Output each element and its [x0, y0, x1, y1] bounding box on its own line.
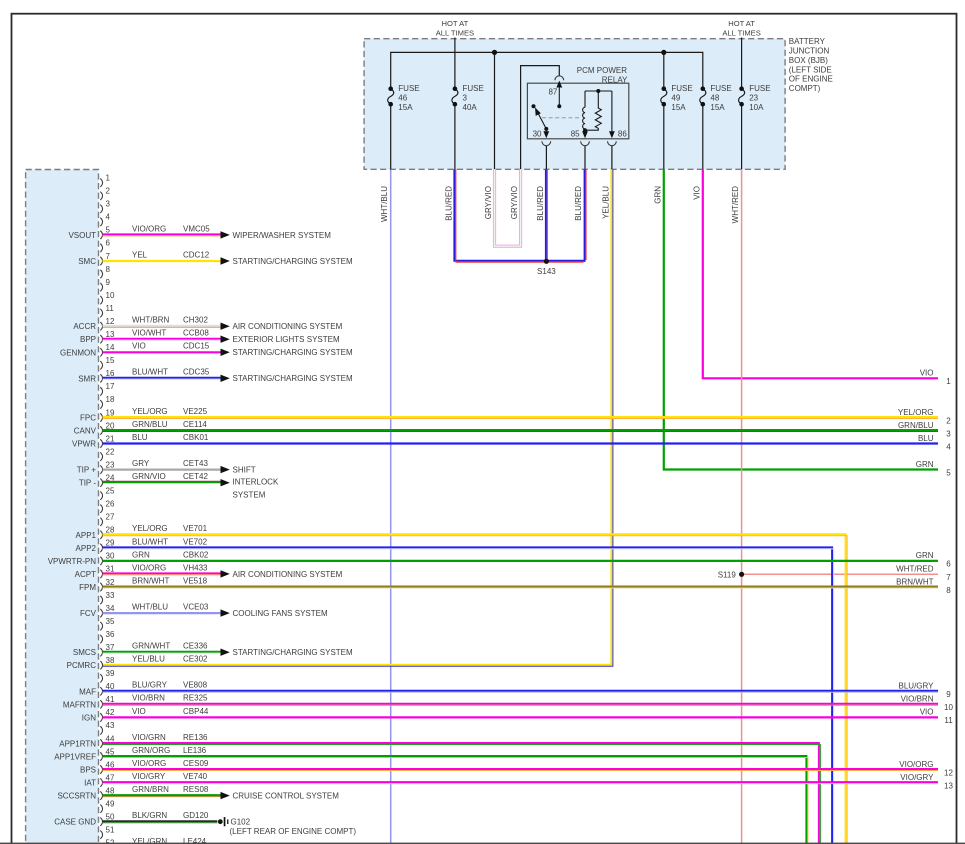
svg-text:10A: 10A [749, 103, 764, 112]
label exit 11 VIO [920, 708, 953, 726]
svg-text:GRN/BLU: GRN/BLU [898, 421, 934, 430]
svg-text:GRN/WHT: GRN/WHT [132, 642, 170, 651]
svg-text:CBK02: CBK02 [183, 550, 209, 559]
svg-text:6: 6 [106, 239, 111, 248]
svg-text:FUSE: FUSE [398, 84, 419, 93]
svg-text:CE302: CE302 [183, 655, 208, 664]
svg-text:VIO: VIO [920, 708, 934, 717]
svg-text:37: 37 [106, 643, 115, 652]
svg-text:GRN/ORG: GRN/ORG [132, 746, 170, 755]
svg-text:APP1RTN: APP1RTN [59, 740, 96, 749]
svg-text:SMC: SMC [78, 257, 96, 266]
svg-text:RELAY: RELAY [602, 76, 628, 85]
svg-text:VIO/ORG: VIO/ORG [132, 224, 166, 233]
svg-text:23: 23 [749, 93, 758, 102]
svg-text:86: 86 [618, 129, 627, 138]
PCM connector box outline [26, 170, 99, 844]
svg-text:SHIFT: SHIFT [233, 466, 256, 475]
label exit 10 VIO/BRN [901, 695, 954, 713]
svg-text:ALL TIMES: ALL TIMES [436, 28, 474, 37]
svg-text:15A: 15A [398, 103, 413, 112]
svg-text:43: 43 [106, 721, 115, 730]
svg-text:HOT AT: HOT AT [728, 19, 755, 28]
svg-text:3: 3 [463, 93, 468, 102]
svg-text:CDC12: CDC12 [183, 250, 210, 259]
svg-text:VE740: VE740 [183, 772, 208, 781]
svg-text:SMR: SMR [78, 374, 96, 383]
wire relay pin 30 stub [545, 146, 547, 170]
svg-text:28: 28 [106, 526, 115, 535]
svg-text:CH302: CH302 [183, 316, 208, 325]
wire pin 20 GRN/BLU CE114 [103, 420, 939, 432]
wire pin 45 GRN/ORG LE136 [103, 746, 808, 844]
svg-text:ACCR: ACCR [73, 322, 96, 331]
svg-text:VIO/ORG: VIO/ORG [899, 760, 933, 769]
label exit 7 WHT/RED [896, 565, 951, 583]
svg-text:FPM: FPM [79, 583, 96, 592]
svg-text:BRN/WHT: BRN/WHT [896, 577, 933, 586]
svg-text:8: 8 [106, 265, 111, 274]
svg-text:GRN/BRN: GRN/BRN [132, 785, 169, 794]
svg-text:26: 26 [106, 500, 115, 509]
wire pin 19 YEL/ORG VE225 [103, 407, 939, 419]
fuse 49 15A [661, 84, 693, 112]
wire pin 23 GRY CET43 [103, 459, 256, 475]
svg-text:11: 11 [944, 716, 953, 725]
svg-text:ACPT: ACPT [75, 570, 96, 579]
svg-text:WHT/BRN: WHT/BRN [132, 316, 170, 325]
fuse 3 40A [452, 84, 484, 112]
svg-text:VIO/BRN: VIO/BRN [901, 695, 934, 704]
splice S143 [537, 259, 556, 276]
label exit 3 GRN/BLU [898, 421, 951, 439]
svg-text:BOX (BJB): BOX (BJB) [789, 56, 828, 65]
svg-text:47: 47 [106, 773, 115, 782]
relay coil bottom node [583, 128, 587, 132]
label HOT AT ALL TIMES (left) [436, 19, 474, 37]
svg-text:VMC05: VMC05 [183, 224, 210, 233]
wire pin 46 VIO/ORG CES09 [103, 759, 939, 771]
svg-text:2: 2 [106, 187, 111, 196]
svg-text:FUSE: FUSE [749, 84, 770, 93]
svg-text:VCE03: VCE03 [183, 603, 209, 612]
svg-text:13: 13 [106, 330, 115, 339]
wire pin 50 BLK/GRN GD120 [103, 811, 218, 823]
wire GRY/VIO riser to bus [494, 52, 496, 169]
fuse 46 15A [388, 84, 420, 112]
svg-text:48: 48 [106, 786, 115, 795]
svg-text:YEL/ORG: YEL/ORG [898, 408, 934, 417]
svg-text:32: 32 [106, 578, 115, 587]
wire pin 16 BLU/WHT CDC35 [103, 368, 353, 384]
svg-text:VE702: VE702 [183, 537, 208, 546]
svg-text:31: 31 [106, 565, 115, 574]
svg-text:VPWR: VPWR [72, 440, 96, 449]
svg-text:YEL/ORG: YEL/ORG [132, 407, 168, 416]
svg-text:BLU/WHT: BLU/WHT [132, 537, 168, 546]
wire WHT/RED S119 to right edge [742, 573, 938, 575]
svg-text:BPP: BPP [80, 335, 96, 344]
svg-text:CDC35: CDC35 [183, 368, 210, 377]
wire pin 34 WHT/BLU VCE03 [103, 603, 328, 619]
svg-text:SYSTEM: SYSTEM [233, 491, 266, 500]
wire pin 44 VIO/GRN RE136 [103, 733, 821, 844]
svg-text:13: 13 [944, 781, 953, 790]
svg-text:CRUISE CONTROL SYSTEM: CRUISE CONTROL SYSTEM [233, 792, 340, 801]
label exit 6 GRN [916, 551, 952, 569]
wire relay pin 86 stub [611, 146, 613, 170]
wire GRY/VIO loop [495, 169, 521, 246]
svg-text:FUSE: FUSE [463, 84, 484, 93]
svg-text:9: 9 [946, 690, 951, 699]
svg-text:CE336: CE336 [183, 642, 208, 651]
svg-text:WHT/BLU: WHT/BLU [132, 603, 168, 612]
wire pin 42 VIO CBP44 [103, 707, 939, 718]
relay pin 86 cup [608, 141, 617, 145]
wire HOT AT feed to fuse 3 [454, 38, 456, 89]
label exit 1 VIO [920, 369, 952, 387]
svg-text:BLU/WHT: BLU/WHT [132, 368, 168, 377]
svg-text:FUSE: FUSE [710, 84, 731, 93]
svg-text:15A: 15A [671, 103, 686, 112]
svg-text:BLU: BLU [918, 434, 934, 443]
svg-text:WIPER/WASHER SYSTEM: WIPER/WASHER SYSTEM [233, 231, 332, 240]
svg-text:FCV: FCV [80, 609, 97, 618]
wire pin 41 VIO/BRN RE325 [103, 694, 939, 706]
svg-text:30: 30 [533, 129, 542, 138]
svg-text:HOT AT: HOT AT [442, 19, 469, 28]
svg-text:VE701: VE701 [183, 524, 208, 533]
svg-text:RE325: RE325 [183, 694, 208, 703]
svg-text:4: 4 [946, 442, 951, 451]
svg-text:40A: 40A [463, 103, 478, 112]
relay switch blade [535, 107, 548, 130]
svg-text:12: 12 [106, 317, 115, 326]
svg-text:7: 7 [946, 573, 951, 582]
relay coil resistor [585, 91, 601, 130]
svg-text:51: 51 [106, 826, 115, 835]
svg-text:42: 42 [106, 708, 115, 717]
svg-text:27: 27 [106, 513, 115, 522]
svg-text:49: 49 [106, 800, 115, 809]
svg-text:21: 21 [106, 434, 115, 443]
svg-text:CET43: CET43 [183, 459, 208, 468]
label exit 8 BRN/WHT [896, 577, 951, 595]
wire pin 28 YEL/ORG VE701 [103, 524, 848, 844]
PCM connector pin cups 1-52 [100, 179, 102, 844]
svg-text:WHT/RED: WHT/RED [896, 565, 934, 574]
relay pin 87 arrow [556, 81, 562, 109]
svg-text:3: 3 [946, 429, 951, 438]
svg-text:YEL/BLU: YEL/BLU [132, 655, 165, 664]
svg-text:COOLING FANS SYSTEM: COOLING FANS SYSTEM [233, 609, 328, 618]
svg-text:GRY/VIO: GRY/VIO [510, 186, 519, 219]
svg-text:25: 25 [106, 487, 115, 496]
svg-text:CASE GND: CASE GND [54, 818, 96, 827]
svg-text:(LEFT SIDE: (LEFT SIDE [789, 65, 832, 74]
wire WHT/BLU vertical [390, 170, 392, 844]
svg-text:8: 8 [946, 586, 951, 595]
svg-text:VE808: VE808 [183, 681, 208, 690]
svg-text:BLU/RED: BLU/RED [444, 186, 453, 221]
svg-text:VIO/ORG: VIO/ORG [132, 759, 166, 768]
svg-text:RES08: RES08 [183, 785, 209, 794]
svg-text:3: 3 [106, 200, 111, 209]
svg-text:VIO/WHT: VIO/WHT [132, 329, 166, 338]
relay pin 85 cup [581, 141, 590, 145]
wire pin 32 BRN/WHT VE518 [103, 576, 939, 588]
label pin 38 YEL/BLU CE302 [132, 655, 208, 664]
svg-text:STARTING/CHARGING SYSTEM: STARTING/CHARGING SYSTEM [233, 348, 353, 357]
svg-text:9: 9 [106, 278, 111, 287]
svg-text:VH433: VH433 [183, 563, 208, 572]
svg-text:VIO: VIO [920, 369, 934, 378]
wire relay 87 loop [521, 66, 560, 170]
svg-text:30: 30 [106, 552, 115, 561]
svg-text:GRN: GRN [653, 186, 662, 204]
label SHIFT INTERLOCK SYSTEM [233, 478, 279, 500]
wire below fuse 49 [663, 104, 665, 169]
svg-text:STARTING/CHARGING SYSTEM: STARTING/CHARGING SYSTEM [233, 648, 353, 657]
svg-text:2: 2 [946, 416, 951, 425]
svg-text:APP1VREF: APP1VREF [54, 753, 96, 762]
svg-text:46: 46 [106, 760, 115, 769]
wire below fuse 23 [741, 104, 743, 169]
fuse 48 15A [700, 84, 732, 112]
svg-text:GRY/VIO: GRY/VIO [484, 186, 493, 219]
svg-text:VIO/GRY: VIO/GRY [132, 772, 166, 781]
svg-text:AIR CONDITIONING SYSTEM: AIR CONDITIONING SYSTEM [233, 322, 343, 331]
svg-text:TIP -: TIP - [79, 479, 97, 488]
svg-text:CBP44: CBP44 [183, 707, 209, 716]
wire YEL/BLU relay 86 to pin 38 [103, 169, 613, 666]
svg-text:49: 49 [671, 93, 680, 102]
svg-text:YEL/ORG: YEL/ORG [132, 524, 168, 533]
svg-text:20: 20 [106, 421, 115, 430]
svg-text:1: 1 [946, 377, 951, 386]
svg-text:CES09: CES09 [183, 759, 209, 768]
svg-text:AIR CONDITIONING SYSTEM: AIR CONDITIONING SYSTEM [233, 570, 343, 579]
svg-text:VIO/GRN: VIO/GRN [132, 733, 166, 742]
svg-text:GRN: GRN [916, 460, 934, 469]
label HOT AT ALL TIMES (right) [722, 19, 760, 37]
svg-text:19: 19 [106, 408, 115, 417]
svg-text:VIO: VIO [132, 342, 146, 351]
label exit 12 VIO/ORG [899, 760, 953, 778]
svg-text:10: 10 [106, 291, 115, 300]
svg-text:G102: G102 [231, 817, 251, 826]
wire pin 37 GRN/WHT CE336 [103, 642, 353, 658]
wire below fuse 3 [454, 104, 456, 169]
wire fuse 49 feed from bus [663, 52, 665, 88]
wire pin 48 GRN/BRN RES08 [103, 785, 340, 801]
svg-text:WHT/BLU: WHT/BLU [380, 186, 389, 222]
relay pin 30 cup [542, 141, 551, 145]
svg-text:INTERLOCK: INTERLOCK [233, 478, 279, 487]
svg-text:CDC15: CDC15 [183, 342, 210, 351]
svg-text:36: 36 [106, 630, 115, 639]
svg-text:FPC: FPC [80, 414, 96, 423]
svg-text:(LEFT REAR OF ENGINE COMPT): (LEFT REAR OF ENGINE COMPT) [230, 827, 357, 836]
svg-text:ALL TIMES: ALL TIMES [722, 28, 760, 37]
svg-text:VSOUT: VSOUT [68, 231, 96, 240]
svg-text:18: 18 [106, 395, 115, 404]
svg-text:34: 34 [106, 604, 115, 613]
wire pin 31 VIO/ORG VH433 [103, 563, 343, 579]
svg-text:TIP +: TIP + [77, 466, 97, 475]
svg-text:BATTERY: BATTERY [789, 37, 826, 46]
relay pin 87 cup [555, 76, 564, 80]
svg-text:JUNCTION: JUNCTION [789, 47, 830, 56]
svg-text:33: 33 [106, 591, 115, 600]
svg-text:VIO/ORG: VIO/ORG [132, 563, 166, 572]
wire pin 14 VIO CDC15 [103, 342, 353, 358]
svg-text:BRN/WHT: BRN/WHT [132, 576, 169, 585]
svg-text:VE518: VE518 [183, 576, 208, 585]
wire bus in BJB [391, 52, 703, 88]
label exit 9 BLU/GRY [899, 682, 952, 700]
svg-text:LE136: LE136 [183, 746, 207, 755]
svg-text:GRN/VIO: GRN/VIO [132, 472, 166, 481]
wire BLU/RED relay 30 to S143 [546, 169, 548, 261]
svg-text:35: 35 [106, 617, 115, 626]
svg-text:RE136: RE136 [183, 733, 208, 742]
svg-text:22: 22 [106, 447, 115, 456]
svg-text:BPS: BPS [80, 766, 96, 775]
relay coil top wire [585, 89, 612, 93]
bottom window edge [0, 843, 965, 844]
svg-text:S143: S143 [537, 267, 556, 276]
svg-text:STARTING/CHARGING SYSTEM: STARTING/CHARGING SYSTEM [233, 374, 353, 383]
label exit 13 VIO/GRY [900, 773, 953, 791]
PCM pin name labels [48, 231, 97, 827]
svg-text:GRY: GRY [132, 459, 150, 468]
PCM connector pin numbers 1-52 [106, 174, 115, 844]
svg-text:41: 41 [106, 695, 115, 704]
svg-text:14: 14 [106, 343, 115, 352]
svg-text:BLU: BLU [132, 433, 148, 442]
svg-text:45: 45 [106, 747, 115, 756]
splice S119 [718, 570, 744, 579]
relay coil [583, 91, 585, 130]
svg-text:OF ENGINE: OF ENGINE [789, 75, 833, 84]
wire pin 12 WHT/BRN CH302 [103, 316, 343, 332]
svg-text:5: 5 [946, 468, 951, 477]
relay actuation dashed link [542, 117, 580, 119]
svg-text:BLU/GRY: BLU/GRY [132, 681, 168, 690]
svg-text:1: 1 [106, 174, 111, 183]
wire pin 29 BLU/WHT VE702 [103, 537, 834, 844]
svg-text:46: 46 [398, 93, 407, 102]
svg-text:CBK01: CBK01 [183, 433, 209, 442]
svg-text:BLU/RED: BLU/RED [574, 186, 583, 221]
svg-text:SMCS: SMCS [73, 648, 96, 657]
svg-text:VPWRTR-PN: VPWRTR-PN [48, 557, 97, 566]
svg-text:87: 87 [548, 88, 557, 97]
svg-text:6: 6 [946, 560, 951, 569]
svg-text:38: 38 [106, 656, 115, 665]
battery junction box (BJB) outline [364, 39, 785, 170]
label exit 4 BLU [918, 434, 951, 452]
svg-text:VIO/BRN: VIO/BRN [132, 694, 165, 703]
svg-text:GRN: GRN [132, 550, 150, 559]
svg-text:BLU/RED: BLU/RED [536, 186, 545, 221]
svg-text:VIO/GRY: VIO/GRY [900, 773, 934, 782]
wire pin 40 BLU/GRY VE808 [103, 681, 939, 693]
svg-text:17: 17 [106, 382, 115, 391]
wire pin 13 VIO/WHT CCB08 [103, 329, 340, 345]
svg-text:39: 39 [106, 669, 115, 678]
svg-text:29: 29 [106, 539, 115, 548]
svg-text:APP1: APP1 [76, 531, 97, 540]
wire HOT AT feed to fuse 23 [741, 38, 743, 89]
svg-text:40: 40 [106, 682, 115, 691]
wire GRN fuse 49 to right edge [664, 169, 938, 469]
svg-text:85: 85 [571, 129, 580, 138]
wire VIO fuse 48 to right edge [703, 169, 938, 378]
wire below fuse 48 [702, 104, 704, 169]
svg-text:GENMON: GENMON [60, 348, 96, 357]
svg-text:16: 16 [106, 369, 115, 378]
wire pin 5 VIO/ORG VMC05 [103, 224, 332, 240]
svg-text:11: 11 [106, 304, 115, 313]
ground G102 [218, 817, 356, 836]
wire pin 21 BLU CBK01 [103, 433, 939, 444]
svg-text:12: 12 [944, 768, 953, 777]
svg-text:4: 4 [106, 213, 111, 222]
wire pin 24 GRN/VIO CET42 [103, 472, 230, 486]
svg-text:STARTING/CHARGING SYSTEM: STARTING/CHARGING SYSTEM [233, 257, 353, 266]
svg-text:IAT: IAT [84, 779, 96, 788]
wire below fuse 46 [390, 104, 392, 169]
svg-text:23: 23 [106, 460, 115, 469]
label exit 2 YEL/ORG [898, 408, 951, 426]
wire WHT/RED vertical [741, 169, 743, 844]
svg-text:S119: S119 [718, 570, 737, 579]
svg-text:WHT/RED: WHT/RED [731, 186, 740, 224]
svg-text:48: 48 [710, 93, 719, 102]
svg-text:GD120: GD120 [183, 811, 209, 820]
svg-text:BLK/GRN: BLK/GRN [132, 811, 167, 820]
svg-text:FUSE: FUSE [671, 84, 692, 93]
svg-text:PCM POWER: PCM POWER [577, 66, 627, 75]
svg-text:7: 7 [106, 252, 111, 261]
wire BLU/RED relay 85 to S143 [585, 169, 587, 261]
wire pin 7 YEL CDC12 [103, 250, 353, 266]
svg-text:COMPT): COMPT) [789, 84, 821, 93]
svg-text:44: 44 [106, 734, 115, 743]
svg-text:VIO: VIO [692, 186, 701, 200]
label PCM POWER RELAY [577, 66, 628, 85]
svg-text:CANV: CANV [74, 427, 97, 436]
svg-text:CE114: CE114 [183, 420, 207, 429]
svg-text:50: 50 [106, 813, 115, 822]
label BATTERY JUNCTION BOX (BJB) [789, 37, 833, 93]
svg-text:5: 5 [106, 226, 111, 235]
wire BLU/RED from fuse 3 to S143 [454, 169, 584, 262]
svg-text:MAFRTN: MAFRTN [63, 700, 96, 709]
wire relay pin 85 stub [584, 146, 586, 170]
svg-text:VIO: VIO [132, 707, 146, 716]
label exit 5 GRN [916, 460, 952, 478]
svg-text:CCB08: CCB08 [183, 329, 209, 338]
svg-text:15: 15 [106, 356, 115, 365]
wire pin 47 VIO/GRY VE740 [103, 772, 939, 784]
node bus to fuse 49 [661, 50, 666, 55]
svg-text:SCCSRTN: SCCSRTN [57, 792, 96, 801]
node bus to GRY/VIO [492, 50, 497, 55]
svg-text:MAF: MAF [79, 687, 96, 696]
